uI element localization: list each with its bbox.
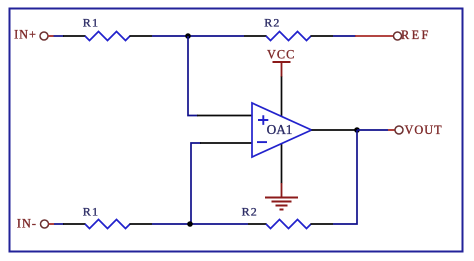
op-amp U1 V- power pin: [281, 144, 283, 184]
svg-text:R1: R1: [83, 205, 99, 219]
svg-text:R1: R1: [83, 16, 99, 30]
port IN+ terminal: [40, 32, 48, 40]
svg-text:REF: REF: [401, 28, 431, 42]
svg-text:VOUT: VOUT: [405, 123, 443, 137]
wire: [54, 35, 65, 37]
resistor R2 (bottom) body: [266, 220, 311, 229]
op-amp OA1 plus sign: [258, 115, 268, 125]
port IN- terminal: [41, 220, 49, 228]
port IN- pin: [49, 223, 55, 225]
op-amp U1 V+ power pin: [281, 77, 283, 117]
resistor R1 (top) pin 1: [63, 35, 86, 37]
port REF terminal: [394, 32, 402, 40]
op-amp OA1 minus sign: [257, 141, 267, 143]
op-amp OA1 triangle: [252, 103, 312, 157]
svg-text:IN+: IN+: [14, 28, 37, 42]
junction node OUT: [354, 127, 360, 133]
wire: [333, 35, 356, 37]
ground bar 2: [272, 201, 292, 203]
ground stem: [281, 183, 283, 198]
junction node A: [185, 33, 191, 39]
junction node B: [187, 221, 193, 227]
port VOUT pin: [388, 129, 395, 131]
port VOUT terminal: [395, 126, 403, 134]
op-amp U1 minus input pin: [200, 142, 252, 144]
resistor R1 (bottom) pin 2: [130, 223, 153, 225]
port REF pin: [355, 35, 394, 37]
resistor R1 (bottom) body: [85, 220, 130, 229]
resistor R1 (bottom) pin 1: [63, 223, 86, 225]
wire node B to op-amp minus input: [191, 143, 201, 224]
resistor R2 (bottom) pin 1: [248, 223, 267, 225]
resistor R2 (top) pin 2: [311, 35, 334, 37]
wire: [357, 129, 388, 131]
svg-text:OA1: OA1: [267, 122, 293, 137]
ground bar 4: [280, 209, 284, 211]
wire: [152, 223, 248, 225]
ground bar 1: [265, 197, 298, 199]
wire: [54, 223, 64, 225]
op-amp U1 plus input pin: [197, 115, 252, 117]
wire node A to op-amp plus input: [188, 36, 198, 116]
resistor R2 (bottom) pin 2: [311, 223, 334, 225]
VCC power stem: [281, 62, 283, 77]
resistor R1 (top) pin 2: [130, 35, 153, 37]
ground bar 3: [276, 205, 288, 207]
VCC power bar: [273, 61, 291, 63]
svg-text:VCC: VCC: [267, 48, 295, 62]
resistor R1 (top) body: [85, 32, 130, 41]
svg-text:R2: R2: [264, 16, 280, 30]
feedback wire (node OUT down to bottom row): [333, 130, 357, 224]
svg-text:IN-: IN-: [17, 217, 37, 231]
svg-text:R2: R2: [242, 205, 258, 219]
resistor R2 (top) body: [266, 32, 311, 41]
port IN+ pin: [48, 35, 54, 37]
resistor R2 (top) pin 1: [244, 35, 267, 37]
wire: [152, 35, 244, 37]
op-amp U1 output pin: [312, 129, 358, 131]
